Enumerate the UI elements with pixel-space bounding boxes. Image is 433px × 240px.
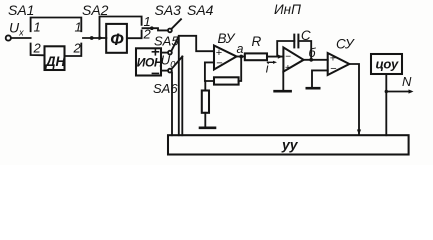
svg-text:а: а — [237, 42, 244, 56]
filter box F — [106, 24, 127, 53]
capacitor feedback left leg — [277, 41, 294, 57]
divider box DN — [45, 46, 65, 70]
stem fb node to gain resistor — [204, 81, 206, 91]
control unit UU box — [168, 135, 409, 154]
svg-text:2: 2 — [33, 41, 42, 56]
switch SA4 contact circle — [168, 29, 172, 33]
switch SA4 arm open — [171, 19, 181, 29]
svg-text:СУ: СУ — [336, 37, 355, 52]
svg-text:цоу: цоу — [376, 57, 400, 72]
wire ION+ to SA5 — [161, 52, 168, 54]
svg-text:−: − — [330, 63, 336, 75]
svg-text:ДН: ДН — [45, 54, 66, 69]
ground bar SU — [307, 87, 319, 90]
node b dot — [309, 58, 313, 62]
node dot on TsOU line — [385, 90, 388, 93]
stem gain resistor to ground — [204, 113, 206, 127]
svg-text:2: 2 — [73, 41, 82, 56]
resistor R box — [245, 53, 267, 60]
wire filter output to SA3 contact 2 — [127, 31, 141, 39]
switch SA6 arm — [171, 57, 182, 70]
svg-text:+: + — [285, 63, 291, 74]
op-amp VU triangle — [214, 46, 237, 70]
wire DN to SA2 contact 2 — [65, 44, 82, 57]
wire TsOU down to UU — [385, 74, 387, 135]
control line L1 from SA6 circle to UU — [171, 73, 173, 136]
svg-text:ИнП: ИнП — [274, 2, 301, 17]
input terminal circle — [6, 35, 11, 40]
wire node to VU + input — [179, 36, 214, 51]
minus terminal label — [152, 72, 158, 74]
wire SA2 common to filter with arrow — [83, 37, 106, 39]
reference source ION box — [136, 48, 161, 75]
svg-text:SA3: SA3 — [155, 2, 182, 18]
node dot after SA2 — [90, 36, 94, 40]
svg-text:1: 1 — [75, 20, 82, 35]
output N wire with arrow — [386, 91, 410, 93]
bypass wire over filter to SA3 contact 1 — [100, 17, 142, 39]
control line L2 to UU — [178, 36, 180, 135]
svg-text:SA1: SA1 — [8, 2, 34, 18]
switch SA5 contact circle — [168, 51, 172, 55]
feedback resistor box — [214, 77, 239, 84]
switch SA1 contact 1, top wire, SA2 contact 1 — [31, 18, 82, 32]
svg-text:уу: уу — [281, 137, 299, 153]
wire R to integrator with arrowhead — [267, 56, 283, 58]
gain resistor vertical box — [202, 91, 209, 113]
op-amp integrator triangle — [283, 47, 303, 71]
svg-text:Ф: Ф — [110, 30, 124, 49]
svg-text:б: б — [309, 46, 317, 60]
svg-text:N: N — [402, 74, 412, 89]
node dot SA3 common — [150, 26, 154, 30]
svg-text:SA6: SA6 — [153, 81, 178, 96]
svg-text:1: 1 — [34, 20, 41, 35]
capacitor right leg to node b — [298, 41, 311, 60]
ground bar VU — [200, 127, 215, 130]
op-amp comparator SU triangle — [328, 53, 350, 75]
node a dot — [239, 55, 243, 59]
SA3 common wire — [143, 28, 168, 30]
VU feedback: minus input wire — [205, 62, 214, 81]
plus terminal label — [152, 49, 158, 55]
switch SA6 contact circle — [168, 69, 172, 73]
wire input to SA1 — [11, 37, 31, 39]
switch SA1 contact 2 + wire to DN — [31, 44, 45, 56]
capacitor C plates — [293, 35, 295, 48]
wire VU out to R — [237, 56, 245, 58]
svg-text:R: R — [252, 34, 262, 49]
ground integrator — [282, 72, 284, 90]
wire ION- to SA6 — [161, 70, 168, 72]
svg-text:−: − — [216, 57, 222, 69]
svg-text:ИОН: ИОН — [137, 56, 163, 70]
wire fb resistor to node a vertical — [239, 57, 242, 82]
current i arrow — [268, 61, 275, 63]
wire integrator out to SU — [304, 59, 328, 61]
svg-text:SA4: SA4 — [187, 2, 214, 18]
control line L3 to UU — [181, 57, 183, 136]
SU minus input ground branch — [312, 70, 328, 87]
wire SU out down to UU with arrow — [349, 64, 359, 135]
digital readout TsOU box — [371, 54, 402, 74]
svg-text:ВУ: ВУ — [218, 31, 236, 46]
switch SA5 arm closed to node — [171, 36, 179, 51]
svg-text:−: − — [285, 51, 291, 62]
